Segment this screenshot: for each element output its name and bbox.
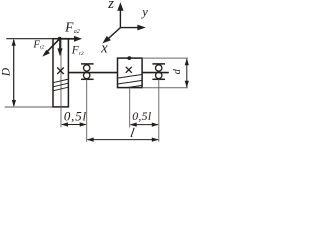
svg-text:0,5l: 0,5l — [64, 109, 87, 123]
bearing B top bar — [152, 63, 165, 65]
svg-text:y: y — [140, 5, 148, 19]
force application point — [58, 37, 62, 41]
svg-text:r2: r2 — [79, 51, 84, 57]
gear 2 cross mark — [126, 67, 132, 73]
svg-text:t2: t2 — [40, 45, 45, 51]
gear 1 cross mark — [57, 68, 64, 75]
extension line below gear 1 — [60, 107, 62, 128]
axis z — [117, 2, 123, 27]
gear 1 (left, side view) — [53, 39, 68, 107]
force Fa2 arrow — [60, 36, 82, 42]
gear 1 hatch — [53, 79, 68, 91]
dimension l label — [129, 125, 136, 140]
svg-text:a2: a2 — [74, 29, 80, 35]
gear 2 hatch — [118, 75, 143, 88]
shaft segment left — [68, 72, 117, 74]
bearing A bottom bar — [81, 78, 94, 80]
bearing B upper ball — [156, 65, 162, 71]
gear 2 (right, section box) — [118, 58, 143, 88]
axis x — [102, 28, 120, 44]
dimension d line — [185, 58, 189, 88]
dimension d bottom extension — [142, 87, 188, 89]
dimension 0,5l right line — [130, 123, 159, 127]
bottom extension line — [5, 106, 53, 108]
bearing A lower ball — [84, 72, 90, 78]
gear 1 centerline — [60, 40, 62, 107]
axis y — [120, 25, 145, 31]
gear 2 force point — [127, 56, 131, 60]
force Ft2 arrow — [42, 39, 59, 57]
bearing B lower ball — [156, 72, 162, 78]
force Fr2 arrow — [57, 39, 62, 57]
svg-text:z: z — [107, 0, 114, 12]
dimension 0,5l left line — [61, 122, 87, 126]
svg-text:D: D — [0, 67, 12, 77]
bearing B bottom bar — [152, 78, 165, 80]
extension line below bearing A — [86, 79, 88, 142]
svg-text:x: x — [100, 41, 108, 57]
svg-text:0,5l: 0,5l — [132, 109, 152, 123]
dimension D line — [12, 39, 16, 107]
shaft segment right — [142, 72, 169, 74]
extension line below bearing B — [158, 79, 160, 142]
extension line below gear 2 — [129, 88, 131, 128]
bearing A top bar — [81, 63, 94, 65]
dimension d top extension — [142, 57, 188, 59]
dimension l line — [87, 138, 159, 142]
bearing A upper ball — [84, 65, 90, 71]
top extension / force line — [6, 38, 68, 40]
svg-text:F: F — [64, 20, 74, 35]
